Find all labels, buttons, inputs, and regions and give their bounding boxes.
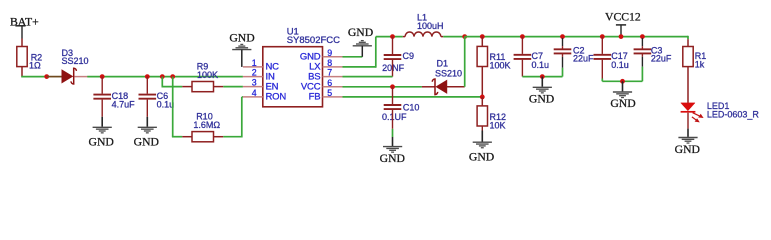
capacitor C3 22uF — [634, 38, 672, 81]
svg-text:GND: GND — [529, 93, 554, 106]
svg-text:8: 8 — [327, 58, 332, 68]
node junction C7 top — [520, 34, 525, 39]
svg-text:1: 1 — [252, 58, 257, 68]
node junction gnd C17/C3 — [620, 79, 625, 84]
svg-text:3: 3 — [252, 78, 257, 88]
capacitor C17 0.1u — [594, 37, 629, 82]
ground under C10 — [380, 137, 405, 165]
wire D3 to IC pin2 main rail — [87, 76, 243, 78]
node junction gnd C7/C2 — [540, 74, 545, 79]
svg-text:20NF: 20NF — [382, 63, 405, 73]
diode D3 SS210 — [62, 48, 89, 84]
node junction FB divider — [480, 95, 485, 100]
ground above IC pin1 — [229, 31, 254, 67]
U1 pin 4 RON — [243, 88, 286, 103]
U1 pin 2 IN — [243, 68, 275, 83]
ground under C18 — [89, 117, 114, 149]
net flag BAT+ — [10, 15, 39, 38]
node junction C2 top — [560, 34, 565, 39]
svg-text:4.7uF: 4.7uF — [112, 100, 136, 110]
svg-text:C10: C10 — [403, 102, 420, 112]
resistor R9 100K — [182, 62, 223, 92]
resistor R10 1.6Mohm — [182, 111, 223, 142]
wire riser to top rail — [464, 37, 466, 87]
svg-text:SS210: SS210 — [62, 56, 89, 66]
svg-text:6: 6 — [327, 78, 332, 88]
capacitor C2 22uF — [554, 38, 594, 77]
svg-text:GND: GND — [380, 152, 405, 165]
ground under LED1 — [675, 129, 700, 157]
wire junction to D3 anode — [47, 76, 62, 78]
wire R9 to IC pin3 — [223, 86, 243, 88]
node junction to R10 — [170, 74, 175, 79]
node junction left rail — [44, 74, 49, 79]
svg-text:SS210: SS210 — [435, 68, 462, 78]
svg-text:C9: C9 — [403, 51, 415, 61]
resistor R12 10K — [477, 97, 506, 131]
capacitor C7 0.1u — [514, 37, 549, 77]
capacitor C9 20NF — [382, 37, 414, 77]
IC U1 SY8502FCC body — [263, 27, 340, 107]
capacitor C6 0.1u — [139, 77, 175, 117]
svg-text:GND: GND — [229, 31, 254, 44]
wire LED cathode to ground — [687, 113, 689, 129]
node junction VCC12 — [619, 34, 624, 39]
capacitor C18 4.7uF — [93, 77, 135, 117]
svg-text:GND: GND — [89, 135, 114, 148]
svg-text:9: 9 — [327, 48, 332, 58]
U1 pin 3 EN — [243, 78, 279, 93]
svg-text:LED-0603_R: LED-0603_R — [707, 110, 760, 120]
svg-text:22uF: 22uF — [651, 54, 672, 64]
wire pin9 to ground — [343, 56, 363, 58]
wire C17 to C3 bottom — [602, 80, 642, 82]
wire C10 to ground — [392, 129, 394, 137]
wire output top rail — [465, 36, 688, 38]
svg-text:GND: GND — [469, 150, 494, 163]
svg-text:0.1UF: 0.1UF — [382, 112, 407, 122]
ground under R12 — [469, 131, 494, 164]
LED LED1 LED-0603_R — [681, 101, 760, 123]
node junction C9/L1 — [390, 34, 395, 39]
svg-text:GND: GND — [610, 97, 635, 110]
wire down to R9 — [162, 77, 183, 87]
svg-text:5: 5 — [327, 88, 332, 98]
svg-text:4: 4 — [252, 88, 257, 98]
node junction VCC/C10 — [390, 84, 395, 89]
wire D1 anode to riser — [447, 86, 465, 88]
wire L1 to output node — [443, 36, 465, 38]
svg-text:RON: RON — [266, 92, 287, 103]
node junction L1 right / output — [462, 34, 467, 39]
node junction at C6 — [145, 74, 150, 79]
U1 pin 6 VCC — [301, 78, 343, 93]
svg-text:GND: GND — [675, 143, 700, 156]
resistor R2 1ohm — [17, 39, 42, 77]
wire pin6 VCC to D1 — [343, 86, 422, 88]
wire C7 to C2 bottom — [522, 76, 562, 78]
svg-text:1Ω: 1Ω — [29, 60, 41, 70]
svg-text:1.6MΩ: 1.6MΩ — [193, 120, 220, 130]
node junction to R9 — [160, 74, 165, 79]
node junction C17 top — [600, 34, 605, 39]
svg-text:SY8502FCC: SY8502FCC — [287, 35, 340, 46]
svg-text:22uF: 22uF — [573, 54, 594, 64]
wire down to R10 — [172, 77, 182, 137]
U1 pin 8 LX — [309, 58, 342, 73]
node junction at C18 — [100, 74, 105, 79]
svg-text:100K: 100K — [490, 61, 511, 71]
svg-text:FB: FB — [309, 92, 321, 103]
svg-text:100K: 100K — [197, 70, 218, 80]
wire pin5 FB to feedback divider — [343, 96, 483, 98]
resistor R1 1k — [683, 36, 707, 103]
ground under C17/C3 — [610, 81, 635, 110]
svg-text:GND: GND — [348, 26, 373, 39]
svg-text:0.1u: 0.1u — [157, 100, 175, 110]
svg-text:GND: GND — [134, 135, 159, 148]
capacitor C10 0.1UF — [382, 87, 419, 129]
net flag VCC12 — [605, 10, 641, 36]
U1 pin 5 FB — [309, 88, 343, 103]
inductor L1 100uH — [403, 12, 444, 36]
U1 pin 9 GND — [300, 48, 343, 63]
svg-text:1k: 1k — [695, 60, 705, 70]
node junction R11 top — [480, 34, 485, 39]
D3 cathode stub — [74, 76, 87, 78]
wire R10 to IC pin4 — [223, 97, 243, 138]
diode D1 SS210 — [422, 59, 462, 95]
wire pin8 LX up to top rail — [343, 37, 403, 68]
svg-text:10K: 10K — [490, 120, 506, 130]
svg-text:D1: D1 — [437, 59, 449, 69]
ground under C7/C2 — [529, 77, 554, 106]
U1 pin 1 NC — [243, 58, 279, 73]
svg-text:2: 2 — [252, 68, 257, 78]
svg-text:VCC12: VCC12 — [605, 10, 641, 23]
wire pin7 BS to C9 — [343, 76, 393, 78]
node junction C3 top — [640, 34, 645, 39]
U1 pin 7 BS — [308, 68, 342, 83]
ground above pin9 wire — [348, 26, 373, 57]
svg-text:0.1u: 0.1u — [532, 60, 550, 70]
wire R2 to D3 junction — [21, 76, 47, 78]
ground under C6 — [134, 117, 159, 149]
svg-text:7: 7 — [327, 68, 332, 78]
svg-text:100uH: 100uH — [417, 21, 444, 31]
svg-text:0.1u: 0.1u — [611, 60, 629, 70]
resistor R11 100K — [477, 37, 510, 97]
